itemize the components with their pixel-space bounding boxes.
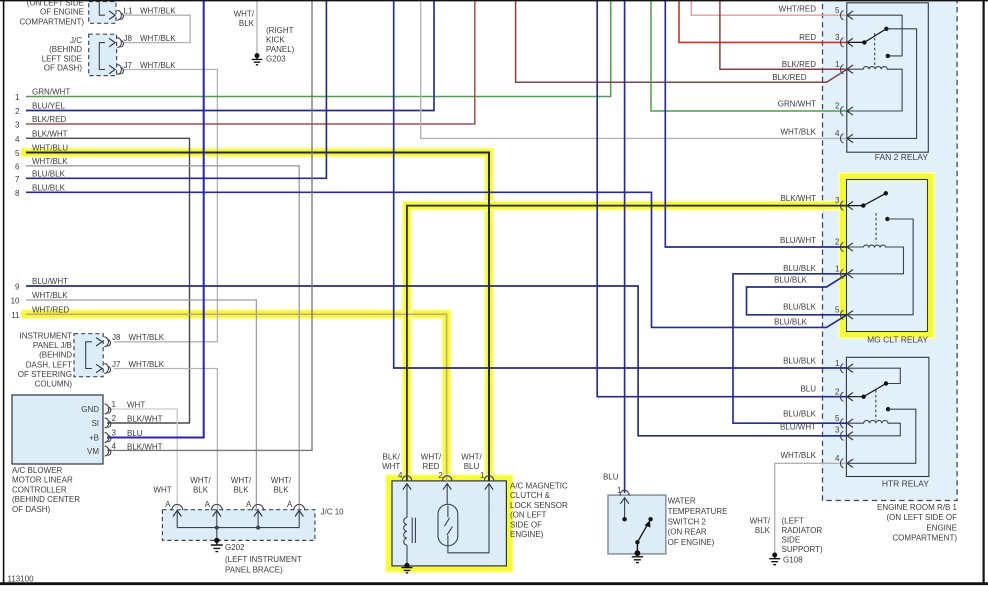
wire GRN/WHT line 1 (26, 0, 611, 97)
ground G108 (769, 553, 780, 565)
wire WHT blower pin 1 to J/C 10 (107, 409, 177, 511)
MG CLT relay switch blade pin 3 (848, 193, 886, 205)
FAN 2 relay coil pins 1-2 (848, 67, 902, 111)
FAN 2 relay pin arrows (847, 11, 853, 19)
HTR relay switch blade pin 2 (848, 384, 886, 397)
A/C clutch internal arrows (407, 483, 489, 517)
svg-text:PANEL J/B: PANEL J/B (33, 341, 72, 350)
svg-text:BLU/WHT: BLU/WHT (32, 277, 68, 286)
svg-text:BLU: BLU (127, 429, 143, 438)
svg-text:BLU/YEL: BLU/YEL (32, 102, 65, 111)
lock sensor to pin 1 (448, 509, 489, 553)
svg-text:BLU/WHT: BLU/WHT (780, 422, 816, 431)
svg-text:G202: G202 (225, 543, 245, 552)
svg-text:1: 1 (480, 471, 485, 480)
water temp switch terminal arc (620, 490, 629, 495)
svg-text:BLU/BLK: BLU/BLK (32, 170, 66, 179)
wire BLU/YEL line 2 (26, 0, 434, 111)
svg-text:WHT: WHT (153, 486, 171, 495)
HTR relay pin 1 to blade contact (848, 368, 900, 383)
svg-text:WHT/BLK: WHT/BLK (129, 333, 165, 342)
svg-text:(ON REAR: (ON REAR (668, 528, 707, 537)
wire BLU/WHT line 9 to HTR relay pin 3 (26, 286, 847, 436)
svg-text:A/C BLOWER: A/C BLOWER (12, 466, 62, 475)
svg-text:WHT/RED: WHT/RED (32, 305, 70, 314)
svg-text:KICK: KICK (266, 36, 285, 45)
svg-text:BLK/RED: BLK/RED (782, 60, 816, 69)
svg-text:WHT/: WHT/ (234, 10, 255, 19)
MG CLT relay highlight box (843, 177, 931, 335)
wire WHT/BLK J7 to instrument panel J/B J8 (114, 70, 217, 342)
svg-text:2: 2 (438, 471, 443, 480)
engine room R/B 1 box (823, 0, 958, 501)
wire WHT/RED highlight line 11 (21, 314, 447, 480)
instrument panel J/B internal jumper J8-J7 (86, 342, 92, 369)
svg-text:WHT/BLK: WHT/BLK (140, 61, 176, 70)
svg-text:BLU/BLK: BLU/BLK (774, 276, 808, 285)
wire BLU/BLK jumper MG CLT pin 1 to pin 5 (747, 274, 848, 314)
svg-text:WHT/BLK: WHT/BLK (780, 451, 816, 460)
svg-text:LEFT SIDE: LEFT SIDE (42, 54, 82, 63)
svg-text:COLUMN): COLUMN) (35, 380, 73, 389)
wire BLK/RED line 3 (26, 0, 475, 124)
svg-text:(BEHIND: (BEHIND (49, 45, 82, 54)
svg-text:BLU/BLK: BLU/BLK (32, 184, 66, 193)
svg-text:113100: 113100 (8, 575, 35, 584)
svg-text:J7: J7 (124, 61, 133, 70)
MG CLT relay box (847, 180, 928, 332)
junction connector J/C terminal arcs (117, 38, 121, 48)
MG CLT relay pin brackets (841, 201, 844, 210)
svg-text:BLK/RED: BLK/RED (772, 73, 806, 82)
svg-text:ENGINE): ENGINE) (510, 530, 544, 539)
FAN 2 relay blade-coil link (874, 33, 876, 66)
wire WHT/BLU line 5 to clutch pin 1 (26, 153, 489, 482)
svg-text:5: 5 (835, 414, 840, 423)
svg-text:J/C: J/C (70, 36, 82, 45)
wire BLK/RED second to FAN 2 relay pin 1 (516, 0, 847, 82)
svg-text:BLK: BLK (193, 486, 209, 495)
svg-text:BLU: BLU (603, 472, 619, 481)
svg-text:WHT/: WHT/ (750, 517, 771, 526)
diagram frame border (0, 0, 988, 2)
svg-text:BLK: BLK (239, 19, 255, 28)
svg-text:WHT/BLK: WHT/BLK (129, 360, 165, 369)
wire BLK/WHT blower pin 4 (107, 0, 312, 450)
svg-text:WHT/RED: WHT/RED (779, 5, 817, 14)
svg-text:BLU/BLK: BLU/BLK (783, 410, 817, 419)
svg-text:FAN 2 RELAY: FAN 2 RELAY (875, 152, 929, 162)
svg-text:RADIATOR: RADIATOR (782, 526, 823, 535)
svg-text:2: 2 (112, 414, 117, 423)
water temp switch ground (632, 542, 643, 562)
svg-text:TEMPERATURE: TEMPERATURE (668, 507, 728, 516)
HTR relay pin arrows (847, 364, 853, 372)
water temp switch internal contact and arrow (624, 497, 626, 519)
svg-text:WHT/: WHT/ (461, 452, 482, 461)
instrument panel J/B terminal arcs (104, 337, 108, 347)
svg-text:SWITCH 2: SWITCH 2 (668, 517, 707, 526)
svg-text:2: 2 (15, 107, 20, 116)
svg-text:A/C MAGNETIC: A/C MAGNETIC (510, 482, 568, 491)
wire BLU/BLK MG CLT relay pin 1 to HTR relay pin 5 (733, 274, 847, 423)
svg-text:BLU/WHT: BLU/WHT (780, 236, 816, 245)
svg-text:BLU: BLU (464, 462, 480, 471)
FAN 2 relay upper contact to pin 4 (848, 29, 917, 139)
wire BLU/BLK line 8 to MG CLT relay pin 5 (26, 192, 847, 327)
svg-text:OF ENGINE): OF ENGINE) (668, 538, 715, 547)
svg-text:GND: GND (81, 405, 99, 414)
junction connector J/C internal jumper J8-J7 (99, 43, 105, 70)
wire BLU/BLK to HTR relay pin 1 (394, 0, 847, 368)
svg-text:WHT/BLK: WHT/BLK (140, 34, 176, 43)
svg-text:(RIGHT: (RIGHT (266, 26, 294, 35)
svg-text:MG CLT RELAY: MG CLT RELAY (867, 335, 928, 345)
HTR relay coil pins 5-3 (848, 420, 900, 435)
wire RED to FAN 2 relay pin 3 (679, 0, 847, 42)
FAN 2 relay box (847, 3, 929, 152)
A/C magnetic clutch and lock sensor box (392, 481, 506, 566)
svg-text:J7: J7 (112, 360, 121, 369)
svg-text:WHT: WHT (382, 462, 400, 471)
svg-text:+B: +B (89, 434, 99, 443)
wire BLU/BLK line 7 (26, 0, 326, 178)
water temp switch blade (635, 520, 650, 544)
connector L1 box (89, 2, 116, 24)
svg-text:(ON LEFT SIDE OF: (ON LEFT SIDE OF (886, 513, 957, 522)
svg-text:WHT/BLK: WHT/BLK (780, 128, 816, 137)
svg-text:A: A (246, 500, 252, 509)
FAN 2 relay switch blade pin 3 (848, 29, 886, 43)
clutch case ground (402, 563, 413, 573)
svg-text:(ON LEFT: (ON LEFT (510, 511, 547, 520)
svg-text:BLK: BLK (273, 486, 289, 495)
svg-text:INSTRUMENT: INSTRUMENT (20, 332, 73, 341)
svg-text:PANEL): PANEL) (266, 45, 295, 54)
svg-text:BLK/: BLK/ (383, 452, 401, 461)
wire GRN/WHT to FAN 2 relay pin 2 (651, 0, 847, 111)
svg-text:VM: VM (87, 447, 99, 456)
svg-text:OF DASH): OF DASH) (44, 64, 83, 73)
svg-text:WHT/BLK: WHT/BLK (140, 7, 176, 16)
svg-text:4: 4 (398, 471, 403, 480)
svg-text:LOCK SENSOR: LOCK SENSOR (510, 501, 568, 510)
ground G203 (252, 53, 263, 65)
svg-text:WATER: WATER (668, 497, 696, 506)
svg-text:WHT/: WHT/ (190, 476, 211, 485)
junction connector J/C 10 box (162, 510, 315, 541)
wire WHT/RED to FAN 2 relay pin 5 (691, 0, 847, 15)
svg-text:1: 1 (15, 93, 20, 102)
svg-text:4: 4 (835, 129, 840, 138)
wire WHT/BLK instrument panel J/B J7 to J/C 10 (114, 369, 217, 512)
HTR relay blade-coil link (875, 390, 877, 420)
svg-text:4: 4 (15, 135, 20, 144)
svg-text:CONTROLLER: CONTROLLER (12, 485, 67, 494)
svg-text:3: 3 (15, 121, 20, 130)
svg-text:OF DASH): OF DASH) (12, 505, 51, 514)
svg-text:7: 7 (15, 175, 20, 184)
svg-text:3: 3 (112, 429, 117, 438)
svg-text:(LEFT: (LEFT (782, 517, 804, 526)
svg-text:(BEHIND CENTER: (BEHIND CENTER (12, 495, 80, 504)
svg-text:J8: J8 (124, 34, 133, 43)
svg-text:RED: RED (423, 462, 440, 471)
svg-text:(BEHIND: (BEHIND (39, 351, 72, 360)
svg-text:BLU/BLK: BLU/BLK (783, 303, 817, 312)
svg-text:2: 2 (835, 238, 840, 247)
svg-text:1: 1 (112, 400, 117, 409)
svg-text:G108: G108 (783, 556, 803, 565)
svg-text:G203: G203 (266, 55, 286, 64)
svg-text:WHT/: WHT/ (271, 476, 292, 485)
svg-text:(LEFT INSTRUMENT: (LEFT INSTRUMENT (225, 555, 302, 564)
wire BLU/WHT to MG CLT relay pin 2 (665, 0, 847, 247)
svg-text:WHT/BLK: WHT/BLK (32, 157, 68, 166)
svg-text:8: 8 (15, 189, 20, 198)
connector L1 terminal arcs (117, 10, 121, 20)
svg-text:5: 5 (835, 6, 840, 15)
A/C blower motor linear controller box (12, 395, 103, 464)
wire BLK/WHT clutch pin 4 to MG CLT relay pin 3 (407, 206, 847, 481)
MG CLT relay lower contact to pin 5 (885, 217, 889, 221)
MG CLT relay blade-coil link (875, 213, 877, 243)
svg-text:ENGINE ROOM R/B 1: ENGINE ROOM R/B 1 (877, 503, 958, 512)
wire WHT/BLK HTR relay pin 4 to G108 ground (775, 463, 847, 553)
svg-text:COMPARTMENT): COMPARTMENT) (892, 534, 957, 543)
svg-text:BLK: BLK (233, 486, 249, 495)
wire WHT/BLU highlight line 5 (21, 153, 489, 481)
J/C 10 internal arrows and bus (177, 510, 299, 528)
svg-text:J8: J8 (112, 333, 121, 342)
svg-text:HTR RELAY: HTR RELAY (882, 479, 929, 489)
svg-text:5: 5 (15, 149, 20, 158)
svg-text:1: 1 (617, 486, 622, 495)
svg-text:BLK/WHT: BLK/WHT (127, 415, 163, 424)
wire WHT/BLK line 6 to J/C 10 (26, 166, 299, 511)
svg-text:2: 2 (835, 387, 840, 396)
HTR relay box (846, 357, 929, 476)
svg-text:COMPARTMENT): COMPARTMENT) (19, 17, 84, 26)
svg-text:WHT/: WHT/ (231, 476, 252, 485)
wire BLU blower pin 3 (107, 0, 204, 438)
svg-text:BLK/WHT: BLK/WHT (127, 443, 163, 452)
J/C 10 terminal arcs (172, 504, 183, 510)
wire BLK/WHT line 4 to blower pin 2 (26, 138, 190, 423)
svg-text:WHT/BLU: WHT/BLU (32, 144, 68, 153)
A/C blower terminal arcs pins 1-4 (105, 404, 109, 414)
svg-text:1: 1 (835, 60, 840, 69)
svg-text:2: 2 (835, 102, 840, 111)
A/C magnetic clutch highlight box (389, 478, 509, 568)
wire BLU to HTR relay pin 2 (597, 0, 847, 397)
svg-text:BLK: BLK (755, 526, 771, 535)
svg-text:WHT/BLK: WHT/BLK (32, 291, 68, 300)
svg-text:4: 4 (835, 454, 840, 463)
svg-text:BLU/BLK: BLU/BLK (783, 264, 817, 273)
svg-text:3: 3 (835, 33, 840, 42)
svg-text:SIDE: SIDE (782, 536, 801, 545)
HTR relay lower contact to pin 4 (886, 407, 890, 411)
svg-text:3: 3 (835, 196, 840, 205)
wire WHT/BLK to G203 ground (256, 0, 258, 54)
svg-text:9: 9 (15, 283, 20, 292)
MG CLT relay coil pins 2-1 (848, 245, 904, 274)
svg-text:MOTOR LINEAR: MOTOR LINEAR (12, 476, 73, 485)
svg-text:A: A (205, 500, 211, 509)
svg-text:BLK/WHT: BLK/WHT (32, 130, 68, 139)
svg-text:OF STEERING: OF STEERING (18, 370, 72, 379)
svg-text:A: A (165, 500, 171, 509)
svg-text:BLU/BLK: BLU/BLK (783, 357, 817, 366)
svg-text:5: 5 (835, 305, 840, 314)
svg-text:11: 11 (11, 311, 20, 320)
wire WHT/BLK L1 to J8 jumper (124, 15, 190, 42)
svg-text:GRN/WHT: GRN/WHT (32, 88, 70, 97)
junction connector J/C box (89, 34, 117, 75)
svg-text:BLU: BLU (800, 385, 816, 394)
wire BLU to water temperature switch pin 1 (624, 0, 626, 493)
svg-text:SUPPORT): SUPPORT) (782, 545, 824, 554)
ground G202 (211, 538, 223, 552)
svg-text:L1: L1 (124, 7, 133, 16)
svg-text:OF ENGINE: OF ENGINE (40, 7, 84, 16)
svg-text:BLU/BLK: BLU/BLK (774, 317, 808, 326)
svg-text:J/C 10: J/C 10 (321, 508, 345, 517)
clutch coil (404, 518, 407, 546)
svg-text:A: A (287, 500, 293, 509)
svg-text:SIDE OF: SIDE OF (510, 520, 542, 529)
FAN 2 relay pin brackets (841, 11, 844, 20)
wire BLK/WHT highlight clutch to MG relay (407, 206, 842, 480)
svg-text:BLK/WHT: BLK/WHT (780, 194, 816, 203)
lock sensor stadium (438, 504, 458, 546)
svg-text:4: 4 (112, 442, 117, 451)
svg-text:CLUTCH &: CLUTCH & (510, 491, 551, 500)
wire WHT/RED line 11 to clutch pin 2 (26, 314, 447, 481)
svg-text:3: 3 (835, 426, 840, 435)
A/C clutch terminal arcs pins 4,2,1 (402, 476, 412, 482)
svg-text:BLK/RED: BLK/RED (32, 115, 66, 124)
wire WHT/BLK line 10 to J/C 10 (26, 300, 256, 511)
wire WHT/BLK to FAN 2 relay pin 4 (421, 0, 847, 138)
svg-text:DASH, LEFT: DASH, LEFT (26, 360, 72, 369)
svg-text:RED: RED (799, 33, 816, 42)
svg-text:10: 10 (11, 297, 20, 306)
svg-text:WHT/: WHT/ (421, 452, 442, 461)
FAN 2 relay pin 5 to lower contact (848, 15, 902, 56)
svg-text:6: 6 (15, 162, 20, 171)
svg-text:PANEL BRACE): PANEL BRACE) (225, 566, 283, 575)
svg-text:ENGINE: ENGINE (926, 523, 957, 532)
instrument panel J/B box (74, 334, 103, 377)
svg-text:SI: SI (91, 419, 99, 428)
svg-text:GRN/WHT: GRN/WHT (778, 100, 816, 109)
wire BLK/RED to FAN 2 relay pin 1 (720, 0, 847, 69)
svg-text:1: 1 (835, 264, 840, 273)
svg-text:1: 1 (835, 359, 840, 368)
water temperature switch 2 box (608, 495, 666, 554)
svg-text:WHT: WHT (127, 401, 145, 410)
connector L1 internal arrow (99, 2, 105, 15)
MG CLT relay pin arrows (847, 201, 853, 209)
HTR relay pin brackets (841, 364, 844, 373)
